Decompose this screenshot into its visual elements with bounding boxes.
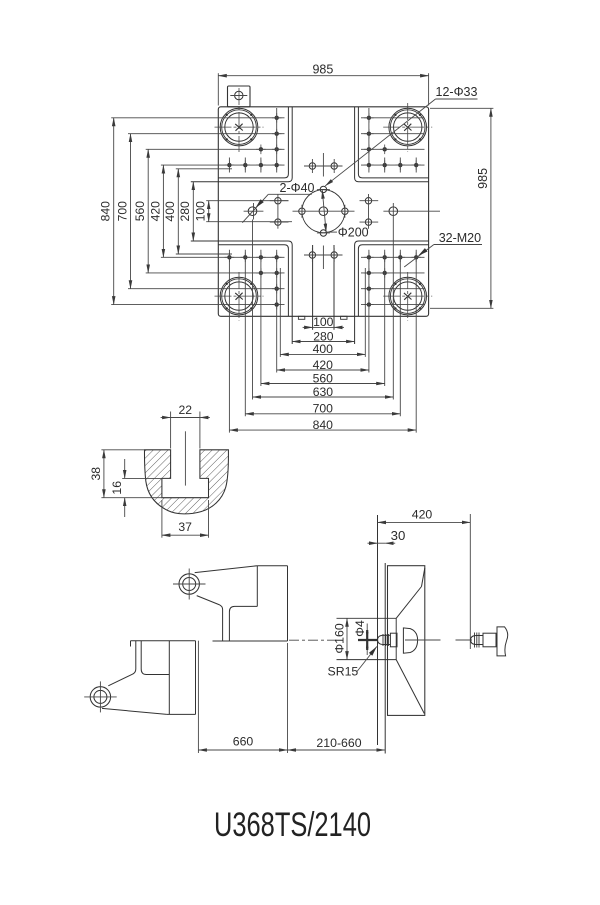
svg-text:2-Φ40: 2-Φ40 [280,181,315,195]
svg-text:985: 985 [312,62,333,76]
dimension 985 right [430,108,493,308]
svg-text:100: 100 [194,201,208,222]
svg-text:400: 400 [313,342,334,356]
platen plate outline [218,107,428,316]
dimension phi160 [333,618,347,659]
platen rib upper diagonal [396,587,421,619]
svg-text:280: 280 [313,329,334,343]
leader 12-phi33 [325,85,477,186]
corner block contour bottom-left [191,241,292,344]
svg-text:560: 560 [313,371,334,385]
dimension 420 [378,508,471,650]
hole row centerlines / extension lines left side [111,118,284,305]
central slot edges / 100 dim extension lines [313,245,334,330]
dimension 100 bottom [303,315,344,329]
phi33 holes on phi200 circle (N,S,E,W) [299,186,348,236]
M20 tapped hole cluster bottom-left (8 of 32-M20) [225,253,282,310]
dimension 210-660 [288,736,385,750]
leader 32-M20 [404,231,482,267]
dimension 100 left [194,201,209,222]
2-phi40 holes [248,207,397,216]
svg-text:Φ200: Φ200 [338,226,369,240]
dimension phi4 [353,620,377,655]
T-slot section detail (hatched) [144,450,228,514]
svg-text:22: 22 [178,403,192,417]
center pattern centerlines [244,153,440,269]
svg-text:32-M20: 32-M20 [439,231,481,245]
ejector bracket lower (retracted position) [84,641,195,715]
svg-text:840: 840 [313,418,334,432]
svg-text:37: 37 [178,520,192,534]
svg-text:840: 840 [99,201,113,222]
dimension 280 left [178,182,193,241]
section 38 extension lines [101,450,176,498]
tie bar hole top-left [215,88,264,152]
svg-text:280: 280 [178,201,192,222]
tie bar hole bottom-left [215,272,264,321]
extension lines 100 dim (left chain) [206,201,292,222]
ejector boss box / phi160 extension lines [337,618,397,659]
svg-text:420: 420 [148,201,162,222]
svg-text:660: 660 [233,735,254,749]
platen side view face line (30 boss) [384,563,386,754]
svg-text:985: 985 [476,168,490,189]
svg-text:38: 38 [89,467,103,481]
dimension 16 section [110,459,125,517]
svg-text:U368TS/2140: U368TS/2140 [214,806,371,844]
corner block contour top-right [355,107,429,182]
hole column centerlines bottom clusters / extension lines of bottom dim chain [229,250,416,433]
dimension 700 left [115,134,130,289]
dimension 840 bottom [229,418,416,432]
platen side view body [388,566,425,716]
svg-text:16: 16 [110,481,124,495]
corner block contour top-left [191,107,292,182]
M20 tapped hole cluster top-right (8 of 32-M20) [364,113,421,170]
dimension 420 bottom [277,358,369,372]
detached ejector rod detail [456,627,508,656]
tie bar hole bottom-right [383,272,432,321]
dimension 700 bottom [245,402,400,416]
hole row centerlines right side [361,118,425,305]
corner block contour bottom-right [355,241,429,344]
hole column centerlines top clusters [229,108,416,173]
phi200 diameter callout [322,190,368,239]
T-slot centerline [184,431,186,485]
svg-text:420: 420 [313,358,334,372]
dimension 37 section [162,520,209,535]
leader 2-phi40 [242,181,314,223]
svg-text:700: 700 [313,402,334,416]
svg-text:100: 100 [313,315,334,329]
extension lines 400 dim (left chain) [176,169,232,254]
dimension 30 [368,528,406,543]
extension lines 400 dim (bottom) [280,268,365,357]
dimension 280 bottom [292,329,354,343]
eyebolt tab top-left [228,86,251,107]
phi33 holes outer ring (8x) [275,163,372,258]
ejector rod on platen [378,628,441,653]
svg-text:Φ160: Φ160 [333,623,347,653]
section 22 extension lines [171,412,200,449]
svg-text:Φ4: Φ4 [353,620,367,637]
leader SR15 [328,647,377,679]
dimension 985 top [218,62,428,105]
machine centerline between bracket and platen [289,639,337,641]
svg-text:210-660: 210-660 [316,736,361,750]
dimension 38 section [89,450,104,498]
dimension 22 section [161,403,210,418]
svg-text:SR15: SR15 [328,664,359,678]
svg-text:30: 30 [391,528,406,543]
svg-text:700: 700 [115,201,129,222]
dimension 560 bottom [261,371,385,385]
svg-text:630: 630 [313,385,334,399]
dimension 400 bottom [280,342,365,356]
M20 tapped hole cluster bottom-right (8 of 32-M20) [364,253,421,310]
svg-text:12-Φ33: 12-Φ33 [436,85,478,99]
dimension 400 left [163,169,178,254]
phi200 locating circle [302,190,345,233]
extension lines 630 dim (phi40 hole columns) [253,220,394,400]
dimension 560 left [133,149,148,273]
dimension 660 [198,641,287,753]
platen side view front face line [377,515,379,745]
section 16 extension line [122,477,163,479]
ejector bracket upper (forward position) [173,566,288,641]
dimension 420 left [148,165,163,257]
M20 tapped hole cluster top-left (8 of 32-M20) [225,113,282,170]
center sprue hole [319,207,328,216]
section 37 extension lines [162,500,209,538]
dimension 840 left [99,118,114,305]
platen rib lower diagonal [396,660,424,714]
svg-text:560: 560 [133,201,147,222]
dimension 630 bottom [253,385,394,399]
svg-text:400: 400 [163,201,177,222]
T-slot marks on bottom edge [298,316,347,319]
tie bar hole top-right [383,103,432,152]
svg-text:420: 420 [412,508,433,522]
